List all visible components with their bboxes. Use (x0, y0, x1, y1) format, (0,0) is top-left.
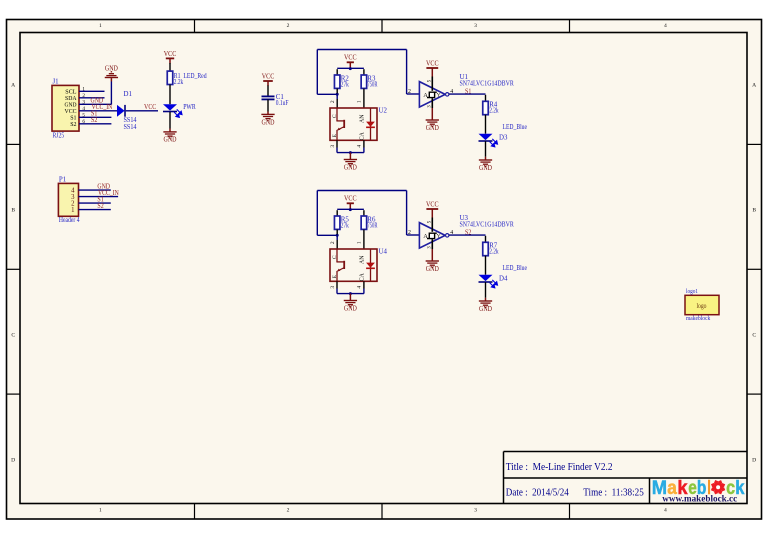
svg-text:A: A (752, 83, 756, 89)
svg-text:4: 4 (664, 508, 667, 514)
title block frame (504, 452, 748, 504)
resistor R2 27k (334, 75, 340, 88)
svg-text:GND: GND (344, 304, 357, 312)
ground below C1 (261, 113, 274, 115)
U3 ground pin (431, 239, 433, 249)
inverter U1 SN74LVC1G14DBVR (419, 82, 445, 108)
svg-text:P1: P1 (59, 177, 67, 184)
LED PWR (163, 104, 177, 110)
wire U3 output to R7 (449, 234, 486, 236)
U4 phototransistor (336, 249, 338, 262)
svg-text:GND: GND (344, 163, 357, 171)
wire D4 to ground (485, 282, 487, 298)
svg-text:750R: 750R (367, 81, 377, 88)
opto sensor U2 (330, 108, 377, 140)
ground below U1 (426, 119, 439, 121)
svg-text:GND: GND (426, 124, 439, 132)
ground below U3 (426, 260, 439, 262)
svg-text:2: 2 (330, 100, 336, 103)
svg-text:A: A (11, 83, 15, 89)
svg-text:E: E (332, 133, 338, 137)
wires U2 to ground (336, 140, 338, 147)
svg-text:2.2k: 2.2k (489, 249, 499, 256)
wire D1 cathode to VCC label (126, 110, 158, 112)
wire to U1 input (407, 93, 420, 95)
svg-text:VCC: VCC (164, 50, 177, 58)
U4 infrared LED (370, 249, 372, 281)
svg-text:RJ25: RJ25 (53, 132, 65, 139)
svg-text:1: 1 (356, 241, 362, 244)
svg-text:SN74LVC1G14DBVR: SN74LVC1G14DBVR (460, 222, 515, 229)
svg-text:U2: U2 (379, 108, 388, 115)
diode D1 SS14 (117, 105, 125, 117)
svg-text:LED_Blue: LED_Blue (503, 265, 528, 272)
svg-text:1: 1 (99, 508, 102, 514)
svg-text:4: 4 (664, 23, 667, 29)
inverter U3 SN74LVC1G14DBVR (419, 223, 445, 249)
ground below D3 (479, 159, 492, 161)
wire R5 to U4 pin2 (336, 230, 338, 235)
svg-text:CA: CA (359, 272, 365, 281)
opto sensor U4 (330, 249, 377, 281)
svg-text:C: C (752, 333, 756, 339)
svg-text:Y: Y (437, 93, 441, 99)
svg-text:LED_Blue: LED_Blue (503, 124, 528, 131)
svg-text:GND: GND (479, 305, 492, 313)
svg-text:D4: D4 (499, 276, 508, 283)
svg-text:B: B (11, 208, 15, 214)
svg-text:S2: S2 (91, 117, 98, 124)
wire VCC rail R2 R3 (337, 67, 364, 69)
ground below U4 (344, 300, 357, 302)
svg-text:27k: 27k (341, 81, 349, 88)
wire R1 to PWR LED (169, 85, 171, 105)
svg-text:3: 3 (474, 508, 477, 514)
wire VCC to R1 (169, 63, 171, 71)
svg-text:VCC: VCC (144, 104, 157, 111)
U1 ground pin (431, 98, 433, 108)
wire R6 to U4 pin1 (363, 230, 365, 241)
wire GND symbol to pin3 (110, 78, 112, 81)
svg-text:1: 1 (356, 100, 362, 103)
svg-text:27k: 27k (341, 222, 349, 229)
ground at J1 (inverted) (111, 71, 112, 73)
Makeblock logo gear (711, 480, 725, 494)
resistor R1 2.2k LED_Red (167, 71, 173, 84)
wire R4 to D3 (485, 115, 487, 134)
svg-text:J1: J1 (53, 79, 60, 86)
svg-text:3: 3 (330, 145, 336, 148)
wire feedback loop S2 (317, 190, 406, 192)
svg-text:C: C (332, 114, 338, 118)
svg-text:SN74LVC1G14DBVR: SN74LVC1G14DBVR (460, 81, 515, 88)
svg-text:S2: S2 (97, 203, 104, 210)
ground below U2 (344, 159, 357, 161)
LED D4 LED_Blue (479, 275, 493, 281)
wire feedback loop S1 (317, 49, 406, 51)
svg-text:VCC: VCC (426, 200, 439, 208)
wire R7 to D4 (485, 256, 487, 275)
wire R3 to U2 pin1 (363, 89, 365, 100)
svg-text:D3: D3 (499, 135, 508, 142)
svg-text:B: B (752, 208, 756, 214)
U2 infrared LED (370, 108, 372, 140)
U1 hysteresis symbol (427, 92, 437, 97)
svg-text:PWR: PWR (183, 104, 196, 111)
svg-text:GND: GND (164, 136, 177, 144)
svg-text:U4: U4 (379, 249, 388, 256)
LED D3 LED_Blue (479, 134, 493, 140)
wire PWR LED to ground (169, 112, 171, 129)
svg-text:D: D (752, 458, 756, 464)
svg-text:VCC: VCC (344, 54, 357, 62)
svg-text:VCC: VCC (344, 195, 357, 203)
resistor R4 2.2k (483, 101, 489, 114)
svg-text:makeblock: makeblock (686, 315, 711, 322)
resistor R5 27k (334, 216, 340, 229)
svg-text:E: E (332, 274, 338, 278)
wire VCC rail R5 R6 (337, 208, 364, 210)
svg-text:AN: AN (359, 114, 365, 123)
svg-text:2: 2 (287, 23, 290, 29)
resistor R3 750R (361, 75, 367, 88)
junction node R5 bottom (336, 234, 339, 237)
svg-text:3: 3 (474, 23, 477, 29)
svg-text:C: C (332, 255, 338, 259)
svg-text:GND: GND (262, 119, 275, 127)
svg-text:logo: logo (697, 302, 707, 310)
wire R2 to U2 pin2 (336, 89, 338, 94)
svg-text:0.1uF: 0.1uF (276, 100, 289, 107)
svg-text:2: 2 (287, 508, 290, 514)
svg-text:www.makeblock.cc: www.makeblock.cc (662, 493, 738, 504)
svg-text:750R: 750R (367, 222, 377, 229)
svg-text:3: 3 (330, 286, 336, 289)
connector P1 Header 4 (58, 183, 78, 216)
svg-text:C: C (11, 333, 15, 339)
svg-text:D1: D1 (124, 91, 133, 98)
svg-text:2.2k: 2.2k (489, 108, 499, 115)
wires U4 to ground (336, 281, 338, 288)
svg-text:Header 4: Header 4 (59, 217, 80, 224)
svg-text:D: D (11, 458, 15, 464)
resistor R7 2.2k (483, 242, 489, 255)
svg-text:1: 1 (99, 23, 102, 29)
ground below PWR LED (163, 131, 176, 133)
connector J1 RJ25 (52, 85, 79, 131)
svg-text:GND: GND (426, 265, 439, 273)
capacitor C1 0.1uF (262, 95, 275, 97)
wire U1 output to R4 (449, 93, 486, 95)
svg-text:VCC: VCC (426, 59, 439, 67)
svg-text:4: 4 (356, 145, 362, 148)
svg-text:SS14: SS14 (124, 124, 137, 131)
svg-text:logo1: logo1 (686, 288, 698, 295)
ground below D4 (479, 300, 492, 302)
svg-text:Title : Me-Line Finder V2.2: Title : Me-Line Finder V2.2 (506, 461, 613, 473)
svg-text:2: 2 (408, 230, 411, 236)
svg-text:1: 1 (71, 207, 74, 214)
svg-text:VCC: VCC (262, 72, 275, 80)
junction node R2 bottom (336, 93, 339, 96)
wire C1 to ground (267, 99, 269, 111)
svg-text:2: 2 (408, 89, 411, 95)
svg-text:CA: CA (359, 131, 365, 140)
U2 phototransistor (336, 108, 338, 121)
svg-text:S2: S2 (70, 121, 76, 128)
svg-text:GND: GND (479, 164, 492, 172)
svg-text:Date : 2014/5/24: Date : 2014/5/24 (506, 487, 569, 499)
Makeblock logo (652, 477, 745, 499)
svg-text:Time : 11:38:25: Time : 11:38:25 (583, 487, 644, 499)
svg-text:AN: AN (359, 255, 365, 264)
U3 hysteresis symbol (427, 233, 437, 238)
svg-text:GND: GND (105, 64, 118, 72)
svg-text:2: 2 (330, 241, 336, 244)
svg-text:2.2k: 2.2k (174, 79, 184, 86)
wire D3 to ground (485, 141, 487, 157)
svg-text:4: 4 (356, 286, 362, 289)
resistor R6 750R (361, 216, 367, 229)
wire VCC to C1 (267, 86, 269, 97)
wire to U3 input (407, 234, 420, 236)
svg-text:Y: Y (437, 234, 441, 240)
